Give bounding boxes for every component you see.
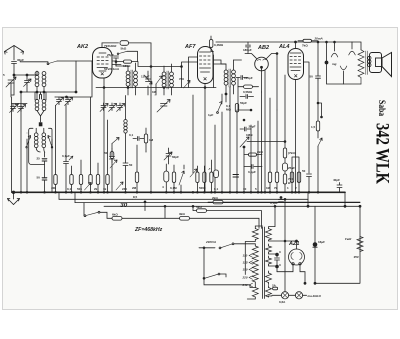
svg-text:5kΩ: 5kΩ [121, 47, 127, 51]
voltage tap labels [242, 254, 253, 288]
wire rail y197.5 [59, 198, 308, 200]
scale lamp [295, 292, 321, 299]
resistor 180 (horizontal) [115, 60, 137, 68]
svg-text:7kΩ: 7kΩ [302, 44, 308, 48]
svg-text:6kΩ: 6kΩ [112, 213, 118, 217]
variable capacitor (tuning, osc) [157, 100, 170, 113]
capacitor 3b [276, 263, 281, 268]
svg-text:50k: 50k [77, 187, 82, 191]
svg-text:40pF: 40pF [333, 178, 340, 182]
switch (mains on/off at pot) [84, 203, 107, 219]
svg-text:25pF: 25pF [107, 53, 114, 57]
wire output loop left [327, 42, 362, 84]
resistors x292/x299 [287, 172, 294, 190]
svg-text:MΩ: MΩ [226, 108, 231, 112]
oscillator coil T2 (two windings + core) [162, 64, 173, 95]
svg-text:25: 25 [37, 157, 41, 161]
speaker socket contact 3 [343, 71, 345, 84]
svg-text:50: 50 [129, 163, 133, 167]
tube AB2 [245, 45, 278, 71]
svg-text:20mA: 20mA [314, 37, 323, 41]
svg-text:2k: 2k [94, 187, 98, 191]
trimmer 780 (right of T2) [179, 77, 190, 88]
oscillator coil T1 (two windings + core) [116, 62, 137, 95]
capacitor 50pF (horizontal x242-254 y125) [240, 119, 256, 131]
resistor 0,1MΩ [170, 165, 177, 192]
trimmer (antenna pad) [24, 75, 32, 92]
wire AL4 grid coupling [247, 75, 285, 143]
wires x215-265 verticals [215, 70, 265, 192]
output choke (zigzag) [352, 42, 367, 84]
svg-text:0,1μF: 0,1μF [248, 170, 256, 174]
svg-text:5000: 5000 [199, 186, 206, 190]
top supply rail [216, 41, 352, 43]
wire x144/x146 [144, 139, 146, 153]
capacitor 50 (x126) [123, 163, 133, 192]
svg-text:AZ1: AZ1 [288, 241, 299, 247]
capacitor 50 (bead) [37, 176, 47, 193]
svg-text:TEKADE: TEKADE [104, 44, 117, 48]
svg-text:0,1μF: 0,1μF [270, 201, 278, 205]
wire AF7 plate to IF [213, 60, 226, 64]
svg-text:10: 10 [243, 187, 247, 191]
resistor 2kΩ (HT feed) [298, 39, 318, 47]
variable capacitor (antenna trimmer) [3, 73, 16, 97]
svg-text:342 WLK: 342 WLK [372, 123, 393, 184]
coil (antenna secondary lower half) [35, 92, 46, 122]
svg-text:ma.4kΩ.6: ma.4kΩ.6 [308, 294, 322, 298]
capacitor 3 (filament bypass) [275, 250, 282, 272]
svg-text:5kΩ: 5kΩ [196, 205, 202, 209]
wire AB2 to rail [234, 54, 278, 111]
speaker socket contact 1 [334, 42, 336, 51]
electrolytic box x216 [214, 170, 219, 178]
tube AZ1 [277, 240, 306, 284]
resistor (diode load x237) [235, 104, 238, 113]
selector switch lower [203, 273, 255, 287]
capacitor 30pF (antenna series) [12, 58, 25, 75]
svg-text:20pF: 20pF [249, 125, 256, 129]
trimmer pair (osc padders x100/x109) [100, 103, 108, 112]
resistor (AF7 screen, vertical at top) [210, 36, 224, 88]
resistor 2kΩ horizontal [244, 150, 263, 156]
svg-text:240: 240 [242, 283, 248, 287]
svg-text:25μF: 25μF [288, 166, 295, 170]
svg-text:(7kΩ): (7kΩ) [288, 151, 296, 155]
transformer primary winding [252, 229, 258, 240]
resistors right pair [266, 98, 272, 192]
capacitor 50 (tone corr) [310, 42, 321, 80]
svg-text:0,5MΩ: 0,5MΩ [243, 90, 253, 94]
svg-text:1M: 1M [152, 90, 157, 94]
trimmer 25pF [107, 53, 119, 62]
band coil windings [34, 128, 45, 157]
svg-text:30: 30 [120, 202, 128, 209]
capacitor 0,1 (x133-137 at 139) [129, 133, 144, 141]
svg-text:1,5: 1,5 [311, 125, 316, 129]
trimmer capacitor (AGC pair b) [65, 97, 73, 106]
svg-text:0,1μF: 0,1μF [62, 154, 70, 158]
svg-text:50V/0,1mA: 50V/0,1mA [104, 67, 120, 71]
resistor 2 [77, 160, 83, 192]
svg-text:0,6A: 0,6A [279, 300, 286, 304]
svg-text:50: 50 [37, 176, 41, 180]
tube AK2 [55, 43, 121, 192]
svg-text:AL4: AL4 [278, 44, 289, 50]
tube AL4 [278, 41, 304, 192]
speaker [368, 53, 392, 77]
svg-text:180pF: 180pF [243, 48, 252, 52]
resistor 3kΩ box [179, 212, 259, 228]
capacitor 0,1 (x281 y198) [270, 200, 284, 206]
svg-text:2M: 2M [132, 186, 137, 190]
svg-text:Feld: Feld [345, 237, 351, 241]
capacitor 0,1uF [62, 105, 73, 193]
transformer secondary windings [266, 229, 272, 240]
svg-text:40k: 40k [51, 186, 56, 190]
wire x292 x299 [292, 157, 299, 192]
capacitor x309 [302, 62, 312, 192]
electrolytic (oval) [162, 164, 169, 192]
wire bus drops [59, 192, 345, 206]
trimmer (x193) [190, 95, 197, 177]
svg-text:50: 50 [302, 169, 306, 173]
antenna coil L1 (two windings) [20, 71, 77, 99]
wire osc to rails [138, 43, 198, 95]
trimmer capacitor (AGC pair a) [56, 97, 64, 106]
wire B+ to field coil loop [315, 206, 360, 283]
svg-text:1M: 1M [266, 186, 271, 190]
trimmer capacitor (left col b) [18, 104, 26, 113]
capacitor (fixed bead on column) [39, 122, 43, 126]
coil (RF choke x119) [124, 96, 127, 164]
resistor 700Ω [283, 174, 293, 192]
transformer core [263, 227, 265, 299]
switch arrow (x181) [179, 165, 184, 192]
trimmer arrow [85, 97, 93, 192]
svg-text:16μF: 16μF [318, 240, 325, 244]
svg-text:0,1: 0,1 [214, 187, 219, 191]
resistor 2MΩ [132, 145, 139, 192]
resistor 0,5MΩ (horizontal) [238, 85, 259, 94]
svg-text:0,1: 0,1 [67, 187, 72, 191]
svg-text:0,4MΩ: 0,4MΩ [214, 43, 224, 47]
resistor 1 [67, 166, 73, 192]
wire verticals left group [27, 133, 52, 192]
wire column x35 x46 down [35, 92, 46, 100]
svg-text:50: 50 [310, 75, 314, 79]
svg-text:60pF: 60pF [172, 155, 179, 159]
svg-text:120pF: 120pF [244, 76, 253, 80]
svg-text:AF7: AF7 [184, 44, 196, 50]
svg-text:2kΩ: 2kΩ [212, 196, 218, 200]
bus junction dots [20, 191, 22, 193]
capacitor (x235.5 dark) [233, 175, 239, 178]
wire x151 x155 [151, 95, 155, 192]
svg-text:230V/A: 230V/A [205, 240, 216, 244]
svg-text:0,1: 0,1 [129, 133, 134, 137]
svg-text:220: 220 [242, 276, 248, 280]
capacitor 120pF [236, 76, 253, 81]
svg-text:ZF=468kHz: ZF=468kHz [134, 227, 163, 233]
capacitor 0,1uF horizontal [244, 165, 262, 175]
band coil frame [29, 128, 52, 164]
svg-text:0,1M: 0,1M [170, 186, 177, 190]
AL4 cathode chain: resistor (7kΩ) [283, 143, 295, 163]
svg-text:Saba: Saba [377, 100, 387, 116]
switch (band switch top) [20, 61, 93, 65]
svg-text:50pF: 50pF [240, 101, 247, 105]
switch (x115) [112, 138, 119, 149]
switch (wave change right) [48, 136, 53, 149]
wire coil bottoms [42, 72, 46, 76]
resistor 3 [94, 163, 100, 192]
capacitor (IF shunt x40.5) [40, 92, 42, 99]
svg-text:AB2: AB2 [257, 45, 269, 51]
capacitor (antenna coupling) [15, 61, 76, 192]
switch (AF7 output x222) [208, 102, 222, 118]
resistor 6kΩ box [107, 213, 180, 221]
wire node A (antenna junction) [13, 74, 37, 76]
wire left column down [12, 95, 15, 192]
mains voltage switch 230V/A [199, 240, 242, 278]
switch (wave change left) [26, 136, 31, 149]
svg-text:1M: 1M [15, 102, 20, 106]
IF transformer T3 [213, 60, 235, 95]
electrolytic 16uF [313, 206, 325, 283]
ground [8, 191, 20, 205]
wire x285 drop (to AZ1 anode) [284, 199, 286, 291]
svg-text:1k: 1k [103, 187, 107, 191]
wire AVC stub left [12, 103, 28, 105]
component block (TEKADE box) [104, 41, 151, 51]
resistor 2kΩ box [208, 196, 360, 204]
capacitor 50pF (horizontal) [240, 95, 254, 106]
wire rail connectors [145, 202, 165, 219]
field coil Feld 350 [345, 237, 363, 260]
speaker socket contact 2 [351, 42, 353, 49]
wire rail y206.5 [104, 205, 360, 207]
svg-text:mg: mg [332, 62, 337, 66]
resistor 1MΩ (x146 vertical at 136) [144, 128, 153, 152]
svg-text:3kΩ: 3kΩ [179, 212, 185, 216]
antenna [5, 46, 24, 61]
fuse 2A [273, 287, 278, 290]
resistor 1,5k (x112) [110, 149, 114, 163]
svg-text:2kΩ: 2kΩ [257, 150, 263, 154]
trimmer (osc padder) [144, 71, 152, 95]
switch (osc wave) [152, 76, 162, 95]
trimmer capacitor (left col a) [10, 104, 18, 113]
dial lamp [272, 292, 296, 304]
resistor 40kΩ [51, 106, 57, 193]
capacitor 60pF trimmer [164, 148, 179, 164]
wire x55 x59 x68 columns [55, 97, 68, 105]
svg-text:AK2: AK2 [76, 44, 88, 50]
capacitor 40pF (x340 on bus) [333, 178, 342, 192]
capacitor 25 (bead) [37, 157, 47, 178]
svg-text:1MΩ: 1MΩ [246, 133, 253, 137]
tube AF7 [184, 44, 213, 192]
resistor 5kΩ box [192, 205, 261, 228]
svg-text:1μF: 1μF [208, 113, 214, 117]
resistor + switch column x318 [311, 80, 322, 192]
wire rail y202 [75, 202, 360, 204]
svg-text:7k: 7k [274, 186, 278, 190]
resistor small group x197-213 [196, 166, 199, 192]
switch (osc section) [117, 51, 137, 61]
capacitor 180pF [243, 42, 252, 54]
svg-text:50: 50 [104, 151, 108, 155]
potentiometer 1MΩ [240, 133, 253, 148]
trimmer arrow 2 [116, 182, 123, 190]
capacitors pair (x111-117) [103, 120, 117, 192]
svg-text:240: 240 [122, 187, 127, 191]
svg-text:350: 350 [354, 255, 359, 259]
wire HT rail to output [317, 41, 319, 43]
electrolytic 25uF [283, 163, 296, 174]
wires AB2 lower [238, 78, 251, 111]
wire anode line y87.5 [96, 87, 216, 89]
